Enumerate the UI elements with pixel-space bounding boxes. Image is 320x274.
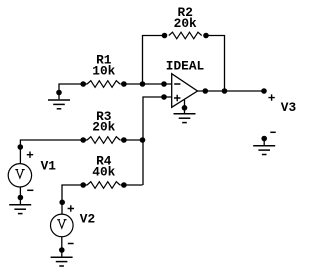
ground (V1): [9, 205, 31, 214]
wire: R4 right to summing vertical: [120, 184, 142, 186]
V2 plus sign: [68, 205, 74, 211]
label R1: [96, 53, 112, 68]
resistor R2: [162, 32, 209, 39]
node V3+ (output probe point): [261, 88, 267, 94]
junction: V2 + terminal: [59, 200, 65, 206]
voltage source V1: [8, 164, 31, 187]
label 20k (R3 value): [92, 120, 115, 135]
wire: R3 right to summing vertical: [120, 139, 143, 141]
junction: non-inverting node (R3/R4): [140, 137, 146, 143]
wire: V2 minus lead to ground: [61, 237, 63, 258]
svg-text:20k: 20k: [92, 120, 115, 135]
label 20k (R2 value): [174, 16, 197, 31]
junction: op-amp output pin: [203, 88, 209, 94]
svg-text:10k: 10k: [92, 63, 115, 78]
label V3: [281, 100, 297, 115]
resistor R3: [80, 137, 126, 144]
wire: V1 minus lead to ground: [19, 187, 21, 204]
junction: inverting node (R1/R2): [140, 81, 146, 87]
label R2: [178, 5, 193, 20]
svg-text:V1: V1: [41, 159, 57, 174]
wire: V1 plus lead up and right to R3: [20, 140, 87, 163]
label 40k (R4 value): [92, 165, 115, 180]
label 10k (R1 value): [92, 63, 115, 78]
svg-text:40k: 40k: [92, 165, 115, 180]
junction: op-amp ground pin: [182, 105, 188, 111]
label R4: [96, 153, 112, 168]
wire: ground lead to R1 left: [59, 84, 87, 99]
ground (op-amp reference): [174, 114, 196, 123]
label V1: [41, 159, 57, 174]
V1 plus sign: [27, 152, 33, 158]
wire: V2 plus lead up and right to R4: [62, 185, 87, 214]
wire: non-inverting input lead: [143, 97, 172, 185]
resistor R1: [80, 81, 126, 88]
resistor R4: [80, 182, 126, 189]
ground (R1 input): [48, 90, 70, 109]
wire: op-amp output to V3 probe: [198, 90, 265, 92]
svg-text:V3: V3: [281, 100, 297, 115]
junction: V2 - terminal: [59, 247, 65, 253]
wire: R2 right lead down to output node: [206, 36, 225, 92]
ground (V2): [51, 257, 73, 266]
junction: V1 - terminal: [18, 195, 24, 201]
op-amp U1 (IDEAL): [172, 74, 198, 108]
svg-text:V2: V2: [80, 212, 95, 227]
wire: op-amp ground pin stem: [184, 100, 186, 114]
label V2: [80, 212, 95, 227]
svg-text:20k: 20k: [174, 16, 197, 31]
junction: op-amp pin +: [161, 94, 167, 100]
label IDEAL: [166, 58, 205, 73]
wire: R1 right to op-amp inverting input: [120, 83, 171, 85]
V3 minus sign: [270, 131, 275, 133]
junction: op-amp pin -: [161, 81, 167, 87]
V1 minus sign: [27, 189, 33, 191]
voltage source V2: [51, 214, 74, 237]
node V3- with ground reference: [253, 136, 275, 155]
label R3: [96, 109, 112, 124]
junction: V1 + terminal: [18, 144, 24, 150]
junction: output/R2 feedback node: [222, 88, 228, 94]
V2 minus sign: [68, 243, 74, 245]
V3 plus sign: [268, 94, 274, 100]
wire minus-node: R2 left lead down to inverting node: [143, 36, 165, 85]
svg-text:IDEAL: IDEAL: [166, 58, 205, 73]
